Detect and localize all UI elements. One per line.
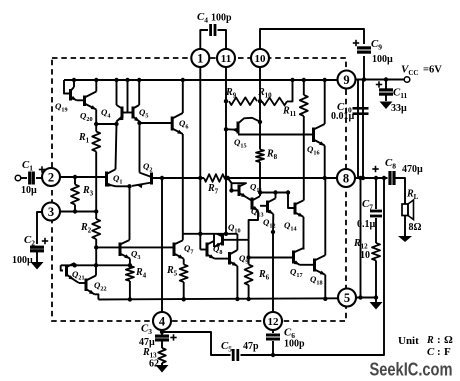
transistor Q18 (300, 255, 326, 275)
wire pin9 to Vcc terminal (356, 79, 405, 81)
svg-text:2: 2 (48, 171, 54, 185)
svg-text:3: 3 (48, 205, 54, 219)
transistor Q20 (77, 80, 97, 110)
resistor R3 (71, 177, 79, 212)
node R3 top (73, 175, 77, 179)
node Q11 base (229, 188, 233, 192)
transistor Q2 (132, 173, 152, 189)
label R10 (257, 87, 272, 100)
wire Q7 collector up (182, 234, 184, 241)
wire pin4 riser (161, 178, 163, 312)
label R6 (258, 269, 270, 282)
node pin5 rail junction a (358, 295, 362, 299)
wire pin10 up loop (260, 29, 364, 49)
wire Q22 emitter to bottom bus (95, 294, 99, 299)
wire pin4 feedback hook (162, 332, 231, 355)
node bus-Q16 junction (323, 78, 327, 82)
wire Q16 emitter to rail (324, 146, 326, 179)
node rail-Q16 junction (323, 176, 327, 180)
svg-text:12: 12 (268, 316, 280, 328)
wire Q1 emitter to tail (116, 185, 130, 187)
value C6 (284, 339, 305, 350)
node bus-Q5 junction (137, 78, 141, 82)
wire top supply bus (64, 79, 337, 81)
label R13 (142, 347, 157, 360)
resistor R7 (204, 174, 225, 182)
speaker RL (402, 200, 414, 220)
label C2 (24, 234, 35, 248)
label Q10 (228, 222, 241, 235)
pin 1 (191, 49, 209, 67)
label R7 (207, 183, 219, 196)
wire base join riser to bus (127, 80, 129, 113)
wire Q16 collector to bus (324, 80, 326, 124)
transistor Q6 (172, 113, 183, 134)
svg-text:10µ: 10µ (21, 185, 37, 196)
wire R10 right riser (287, 80, 293, 101)
label Q20 (80, 111, 93, 124)
label Q12 (263, 217, 276, 230)
node Q15 collector (258, 120, 262, 124)
svg-text:100p: 100p (284, 339, 305, 350)
wire Q8 emitter to Q9 base (215, 258, 230, 260)
plus C1 (39, 166, 45, 172)
svg-text:1: 1 (197, 52, 203, 66)
pin 4 (153, 312, 171, 330)
ground speaker (398, 236, 412, 242)
wire C10 parallel (362, 80, 364, 179)
plus C11 (376, 81, 382, 87)
svg-text:47p: 47p (243, 341, 259, 352)
node R4 bottom bus (128, 297, 132, 301)
resistor R10 (262, 98, 287, 106)
watermark SeekIC.com (370, 359, 453, 380)
value C5 (243, 341, 259, 352)
IC boundary dashed box (52, 58, 346, 321)
wire pin2 to Q1 base (60, 176, 106, 178)
label Q13 (251, 206, 264, 219)
pin 10 (251, 49, 269, 67)
node R2 top (94, 209, 98, 213)
wire Q9 collector v (236, 234, 238, 250)
node Q9 emitter bus (235, 297, 239, 301)
plus C3 (170, 334, 176, 340)
node jog pin11 junction (224, 232, 228, 236)
capacitor C8 (390, 171, 394, 185)
node Q4 emitter junction (114, 122, 118, 126)
input terminal (15, 175, 21, 181)
wire Q14 emitter down to Q17 (303, 217, 305, 250)
node rail junction a (358, 176, 362, 180)
svg-text::: : (437, 334, 441, 346)
label R8 (266, 149, 278, 162)
wire C4 to pin11 (218, 30, 227, 49)
svg-text:0.01µ: 0.01µ (331, 111, 355, 122)
wire pin3 to C2 (37, 212, 42, 244)
wire Q5 emitter to Q6 base (140, 122, 173, 124)
label Q2 (143, 161, 152, 174)
node Q12 collector (273, 190, 277, 194)
node bus-R11 junction (302, 78, 306, 82)
wire input to C1 (21, 177, 27, 179)
resistor R2 (92, 219, 100, 247)
ground C2 (31, 262, 44, 270)
svg-text:100µ: 100µ (372, 54, 393, 65)
svg-text:10: 10 (255, 53, 267, 65)
capacitor C11 (379, 80, 393, 102)
wire pin 10 down (259, 68, 261, 102)
wire R2 node down (95, 247, 97, 265)
value C9 (372, 54, 393, 65)
label Q7 (184, 243, 193, 256)
node pin4 riser junction (160, 176, 164, 180)
wire Q17 collector (303, 248, 305, 250)
transistor Q10 (215, 234, 249, 247)
node tail junction (127, 184, 131, 188)
wire Q4 emitter to R1 node (96, 123, 116, 125)
wire bus left hook to Q19 (64, 80, 71, 97)
node Q22 collector (94, 263, 98, 267)
label Q6 (179, 118, 188, 131)
transistor Q21 (61, 263, 75, 280)
svg-text:10: 10 (360, 250, 370, 261)
label Q3 (131, 249, 140, 262)
wire Q18 emitter to bus (324, 275, 326, 299)
node feedback junction (361, 176, 386, 180)
label R11 (282, 106, 297, 119)
wire R13 to ground (161, 363, 163, 365)
capacitor C10 (353, 108, 369, 113)
plus C8 (372, 166, 378, 172)
node bus-Q20 junction (94, 78, 98, 82)
transistor Q8 (200, 241, 214, 259)
wire C7 to R12 (375, 218, 377, 243)
label C9 (371, 38, 382, 52)
wire pin 11 down (225, 68, 227, 130)
value C3 47u (139, 337, 155, 348)
svg-text:8Ω: 8Ω (409, 222, 422, 233)
resistor R12 (372, 243, 380, 261)
value C8 (402, 164, 423, 175)
resistor R1 (92, 124, 100, 219)
label Q9 (239, 253, 248, 266)
plus C2 (42, 238, 48, 244)
svg-text:0.1µ: 0.1µ (357, 219, 376, 230)
resistor R11 (300, 80, 308, 116)
svg-text:Ω: Ω (444, 334, 453, 346)
label Q18 (310, 274, 323, 287)
wire C3 to R13 (161, 341, 163, 348)
label C5 (221, 340, 232, 354)
capacitor C3 (155, 336, 169, 340)
node R9 left (224, 99, 228, 103)
pin 11 (217, 49, 235, 67)
svg-text:C: C (427, 346, 435, 358)
pin 2 (42, 168, 60, 186)
label Q15 (234, 137, 247, 150)
ground C11 (380, 102, 393, 110)
node pin4 bus crossing (0, 0, 1, 1)
wire R12 to pin5 rail (375, 261, 377, 298)
svg-text:SeekIC.com: SeekIC.com (370, 359, 453, 380)
transistor Q17 (294, 248, 304, 265)
value C2 100u (12, 255, 33, 266)
label R1 (78, 132, 90, 145)
svg-text:R: R (426, 335, 434, 346)
wire C7 branch upper (375, 178, 377, 209)
wire pin8 to C8 (355, 177, 387, 179)
node Q21 collector (73, 263, 77, 267)
wire pin4 below (161, 330, 163, 335)
wire pin1 to C4 (200, 30, 208, 49)
wire Q9 emitter to bus (236, 266, 238, 299)
node rail R7 junction (226, 176, 230, 180)
node pin12 bus crossing (0, 0, 1, 1)
wire bias chain down (248, 240, 250, 258)
label C4 (197, 11, 208, 25)
svg-text:11: 11 (221, 53, 231, 65)
label R4 (135, 267, 147, 280)
svg-text:4: 4 (159, 315, 166, 329)
label C8 (385, 157, 396, 171)
label C1 (22, 159, 33, 173)
node Q18 emitter bus (323, 297, 327, 301)
node R1 top junction (94, 122, 98, 126)
resistor R6 (245, 258, 253, 300)
value R12 (360, 250, 370, 261)
node C6 feedback junction (271, 353, 275, 357)
svg-text:5: 5 (344, 291, 350, 305)
unit note (398, 334, 453, 358)
node bus-Q19 junction (72, 78, 76, 82)
resistor R13 (158, 348, 166, 363)
wire Q15 base to Q16 base (238, 134, 314, 136)
label C11 (393, 87, 408, 101)
svg-text:=6V: =6V (423, 65, 442, 76)
transistor Q3 (120, 240, 130, 259)
value C7 (357, 219, 376, 230)
transistor Q19 (71, 80, 77, 101)
resistor R4 (126, 266, 134, 300)
label C6 (284, 327, 295, 341)
value RL (409, 222, 422, 233)
wire pin12 riser (272, 232, 274, 312)
label R3 (82, 185, 94, 198)
label C10 (337, 101, 352, 115)
wire collector jog line (183, 233, 238, 235)
wire rail drop to Q11 (228, 178, 232, 191)
capacitor C2 (30, 247, 44, 251)
transistor Q4 (117, 105, 124, 124)
pin 3 (42, 203, 60, 221)
wire Q12 emitter to pin12 line (272, 214, 274, 232)
label Q21 (72, 269, 85, 282)
node bus-riser junction (125, 78, 129, 82)
plus C9 (353, 40, 359, 46)
wire Q2 collector line (152, 177, 205, 179)
svg-text:Unit: Unit (398, 335, 419, 347)
node bus-Q6 junction (181, 78, 185, 82)
node bus-Q4 junction (114, 78, 118, 82)
label Q5 (139, 107, 148, 120)
node R6 bottom bus (246, 297, 250, 301)
node pin11 line rail junction (224, 176, 228, 180)
wire Q8 collector (213, 234, 215, 247)
svg-text:F: F (444, 346, 451, 358)
node R4 top (128, 263, 132, 267)
value C10 (331, 111, 355, 122)
wire speaker to ground (404, 216, 406, 237)
label Q14 (284, 220, 297, 233)
transistor Q22 (74, 265, 96, 294)
pin 12 (264, 312, 282, 330)
node C7 junction (374, 176, 378, 180)
wire feedback bottom (241, 178, 385, 355)
capacitor C9 (357, 48, 371, 52)
transistor Q5 (133, 80, 140, 122)
wire Q11 emitter to Q13 (247, 197, 253, 201)
wire bottom bus (98, 298, 338, 299)
value C4 (211, 13, 232, 24)
wire R7 to pin 8 (225, 177, 337, 179)
svg-text:100µ: 100µ (12, 255, 33, 266)
transistor Q13 (252, 196, 260, 210)
resistor R5 (180, 259, 188, 300)
label Q11 (250, 182, 262, 195)
wire C9 to Vcc rail (363, 56, 365, 80)
label R2 (80, 222, 92, 235)
wire Q1 collector up (116, 124, 117, 169)
wire Q20 emitter down (95, 110, 97, 125)
wire Q13 collector junction (258, 190, 262, 194)
svg-text:33µ: 33µ (391, 103, 407, 114)
label RL (406, 189, 419, 202)
resistor R9 (229, 97, 257, 105)
label R5 (166, 265, 178, 278)
label Q4 (101, 107, 110, 120)
svg-text:8: 8 (343, 172, 349, 186)
wire R2 bottom node (94, 245, 98, 249)
wire base line to Q3/Q7 (96, 246, 174, 248)
wire pin12 below (272, 331, 274, 334)
ground pin5 (370, 298, 383, 310)
label Q22 (94, 280, 107, 293)
node bus-R10 junction (290, 78, 294, 82)
label Vcc (401, 64, 442, 78)
resistor R8 (256, 150, 264, 197)
wire R9R10 node down (259, 101, 261, 149)
svg-text:470µ: 470µ (402, 164, 423, 175)
wire Q4-Q5 base join (122, 112, 133, 114)
value C1 10u (21, 185, 37, 196)
label Q17 (290, 267, 303, 280)
wire bus to Q4 collector (116, 80, 118, 105)
wire C2 to ground (36, 251, 38, 262)
transistor Q7 (174, 240, 184, 258)
pin 8 (337, 169, 355, 187)
wire Q5 emitter down to Q2 base (139, 123, 141, 173)
capacitor C1 (30, 172, 34, 185)
wire below pin8 to pin5 rail (360, 178, 362, 298)
node C11 junction (384, 77, 388, 81)
label C7 (362, 198, 373, 212)
node pin12 line top (271, 230, 275, 234)
wire C1 to pin 2 (36, 177, 42, 179)
node pin1 wire junction (198, 176, 202, 180)
label C3 (141, 323, 152, 337)
label Q8 (213, 244, 222, 257)
Vcc terminal (404, 77, 410, 83)
transistor Q1 (107, 169, 116, 187)
wire C10 upper (357, 80, 359, 179)
node R5 bottom bus (182, 297, 186, 301)
node R9-R10 junction (258, 99, 262, 103)
capacitor C4 (211, 24, 215, 36)
wire bias line (260, 192, 288, 194)
label R9 (225, 87, 237, 100)
node Q15 emitter (224, 127, 228, 131)
capacitor C5 (233, 349, 238, 361)
node Q17 base node (246, 255, 250, 259)
capacitor C7 (370, 211, 382, 216)
value C11 (391, 103, 407, 114)
pin 5 (338, 289, 356, 307)
wire Q17 base line (249, 257, 294, 259)
ground R13 (156, 365, 169, 373)
wire pin5 rail (356, 297, 376, 299)
node R3 bottom (73, 209, 77, 213)
node Q14 base junction (286, 190, 290, 194)
transistor Q16 (314, 124, 325, 146)
wire Q21 collector line (61, 264, 130, 266)
svg-text::: : (437, 346, 441, 358)
label R12 (353, 238, 368, 251)
transistor Q12 (260, 193, 276, 215)
transistor Q9 (230, 250, 238, 266)
capacitor C6 (266, 335, 280, 339)
wire pin1 line to Q8 base (199, 178, 201, 250)
wire Q6 emitter down to Q7 collector jog (182, 134, 184, 234)
wire Q3 emitter to R4 (129, 259, 131, 266)
wire C6 down to feedback line (272, 341, 274, 355)
wire pin3 line (60, 211, 96, 213)
wire C8 to speaker (395, 178, 406, 204)
label Q19 (55, 101, 68, 114)
label Q1 (113, 173, 122, 186)
wire Q18 collector to rail (324, 178, 326, 255)
node C9 junction (362, 77, 366, 81)
node pin5 gnd junction (374, 295, 378, 299)
svg-text:9: 9 (343, 73, 349, 87)
wire pin11 line below rail (225, 178, 227, 234)
node jog junction (198, 232, 202, 236)
wire Q13 emitter route (249, 211, 258, 240)
wire tail down to Q3 collector (129, 186, 131, 240)
node pin4 branch (160, 330, 164, 334)
value R13 62 (149, 359, 159, 370)
node Q5 emitter junction (137, 121, 141, 125)
transistor Q14 (288, 193, 304, 217)
pin 9 (338, 71, 356, 89)
wire Q6 collector to bus (182, 80, 184, 113)
transistor Q15 (226, 118, 260, 178)
svg-text:100p: 100p (211, 13, 232, 24)
label Q16 (307, 144, 320, 157)
wire R11 down to Q14 (303, 116, 305, 201)
transistor Q11 (232, 183, 247, 197)
svg-text:62: 62 (149, 359, 159, 370)
wire pin 1 down (199, 68, 201, 179)
